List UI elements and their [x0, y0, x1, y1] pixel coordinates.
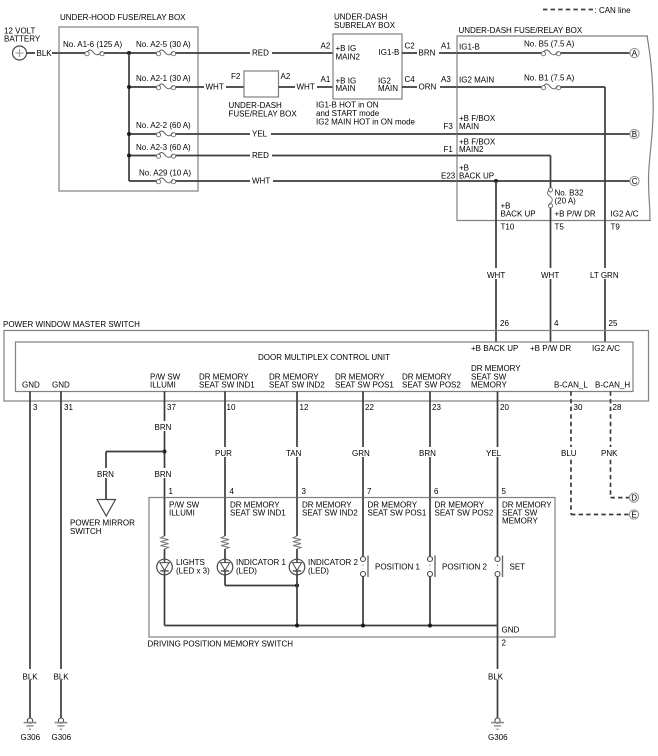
junction dot pin37 branch: [163, 450, 167, 454]
svg-text:PNK: PNK: [601, 449, 618, 458]
wire label BLK: [35, 47, 52, 57]
wire pin5 to switch set: [497, 498, 499, 558]
svg-text:(LED): (LED): [236, 567, 257, 576]
svg-text:F1: F1: [444, 145, 454, 154]
svg-text:BACK UP: BACK UP: [501, 210, 536, 219]
connector circle E: [629, 510, 638, 519]
connector circle B: [630, 129, 639, 138]
bus dot ind2: [295, 624, 299, 628]
fuse A2-3: [156, 152, 175, 158]
svg-text:2: 2: [502, 639, 507, 648]
svg-text:BATTERY: BATTERY: [4, 35, 41, 44]
connector circle C: [630, 176, 639, 185]
svg-text:B-CAN_H: B-CAN_H: [595, 381, 630, 390]
fuse B32: [547, 188, 553, 208]
svg-text:37: 37: [167, 403, 176, 412]
wire label WHT row2: [204, 81, 226, 91]
under-hood fuse/relay box: [59, 27, 198, 191]
svg-text:SEAT SW POS1: SEAT SW POS1: [335, 381, 394, 390]
junction dot ind2: [295, 584, 299, 588]
svg-text:4: 4: [230, 487, 235, 496]
svg-text:3: 3: [302, 487, 307, 496]
wire C4 to A3: [402, 86, 457, 88]
F2 pass-through box: [244, 71, 279, 97]
driving position memory switch box: [149, 498, 555, 638]
svg-text:+B P/W DR: +B P/W DR: [555, 210, 596, 219]
wire label GRN: [350, 447, 375, 457]
wire T10 to pin 26: [495, 221, 497, 343]
svg-text:No. A2-1 (30 A): No. A2-1 (30 A): [136, 74, 191, 83]
wire label BLK gnd2: [486, 669, 506, 680]
resistor lights: [160, 536, 169, 549]
row5 wire: [129, 180, 457, 182]
wire F1 to corner: [457, 155, 551, 157]
battery symbol: [13, 46, 27, 60]
ground G306 a: [24, 718, 37, 729]
wire ind1 to ind2 column: [225, 585, 297, 587]
svg-text:MAIN2: MAIN2: [336, 53, 361, 62]
svg-text:10: 10: [227, 403, 236, 412]
wire label YEL row3: [250, 128, 271, 138]
svg-text:C4: C4: [405, 75, 416, 84]
svg-text:T9: T9: [611, 223, 621, 232]
wire label BRN: [417, 47, 439, 57]
fuse A2-1: [156, 84, 175, 90]
svg-text:26: 26: [500, 319, 509, 328]
bus dot pos1: [361, 624, 365, 628]
wire sw pos1 to bus: [362, 577, 364, 626]
svg-text:G306: G306: [52, 733, 72, 742]
GND bus: [165, 625, 498, 627]
svg-text:UNDER-DASH FUSE/RELAY BOX: UNDER-DASH FUSE/RELAY BOX: [459, 26, 583, 35]
svg-text:LT GRN: LT GRN: [590, 271, 619, 280]
wire A1 to A: [457, 52, 630, 54]
wire pin10 down: [224, 391, 226, 497]
wire label WHT row2b: [295, 81, 317, 91]
svg-text:SET: SET: [510, 563, 526, 572]
svg-text:SEAT SW IND1: SEAT SW IND1: [230, 509, 286, 518]
svg-text:22: 22: [365, 403, 374, 412]
wire T5 to pin 4: [550, 221, 552, 343]
svg-text:31: 31: [64, 403, 73, 412]
svg-text:F2: F2: [231, 72, 241, 81]
svg-text:T10: T10: [501, 223, 515, 232]
svg-text:WHT: WHT: [252, 177, 270, 186]
svg-text:3: 3: [33, 403, 38, 412]
svg-text:A2: A2: [321, 42, 331, 51]
svg-text:IG2 MAIN: IG2 MAIN: [459, 75, 494, 84]
svg-text:WHT: WHT: [297, 83, 315, 92]
svg-text:A1: A1: [441, 42, 451, 51]
svg-text:IG1-B: IG1-B: [459, 43, 480, 52]
wire label BRN main: [153, 468, 176, 478]
wire C2 to A1: [402, 52, 457, 54]
svg-text:E23: E23: [441, 171, 456, 180]
svg-text:MAIN2: MAIN2: [459, 145, 484, 154]
B-CAN_H dashed to D: [611, 497, 630, 499]
wire E23 down to T10: [495, 181, 497, 221]
svg-text:No. A2-5 (30 A): No. A2-5 (30 A): [136, 40, 191, 49]
svg-text:YEL: YEL: [252, 130, 268, 139]
wire pin20 down: [497, 391, 499, 497]
svg-text:: CAN line: : CAN line: [595, 6, 632, 15]
wire label BRN 37: [153, 421, 176, 431]
fuse A2-2: [156, 131, 175, 137]
svg-text:BRN: BRN: [419, 449, 436, 458]
wire F3 to B: [457, 133, 630, 135]
svg-text:FUSE/RELAY BOX: FUSE/RELAY BOX: [229, 110, 298, 119]
wire label WHT t5: [539, 268, 562, 279]
under-dash subrelay box: [333, 34, 402, 99]
wire LED lights to bus: [164, 575, 166, 626]
fuse A29: [156, 178, 175, 184]
svg-text:No. A1-6 (125 A): No. A1-6 (125 A): [63, 40, 122, 49]
bus junction dot row1: [127, 51, 131, 55]
bus junction dot row2: [127, 85, 131, 89]
svg-text:(LED x 3): (LED x 3): [176, 567, 210, 576]
wire pin3 to LED ind2: [296, 498, 298, 560]
svg-text:A3: A3: [441, 75, 451, 84]
wire sw set to bus: [497, 577, 499, 626]
junction dot E23: [494, 179, 498, 183]
wire LED ind2 to bus: [296, 575, 298, 626]
wire label ORN: [417, 81, 440, 91]
CAN line legend: [543, 9, 593, 11]
svg-text:SEAT SW POS1: SEAT SW POS1: [368, 509, 427, 518]
switch position 1: [361, 556, 369, 578]
svg-text:DRIVING POSITION MEMORY SWITCH: DRIVING POSITION MEMORY SWITCH: [148, 640, 294, 649]
svg-text:RED: RED: [252, 49, 269, 58]
resistor ind1: [221, 536, 230, 549]
svg-text:No. A2-2 (60 A): No. A2-2 (60 A): [136, 121, 191, 130]
branch wire to power mirror switch: [106, 451, 165, 453]
svg-text:GRN: GRN: [352, 449, 370, 458]
svg-text:SEAT SW POS2: SEAT SW POS2: [435, 509, 494, 518]
svg-text:F3: F3: [444, 122, 454, 131]
svg-text:C: C: [632, 177, 638, 186]
svg-text:BRN: BRN: [155, 470, 172, 479]
svg-text:12: 12: [300, 403, 309, 412]
wire label BLU: [559, 447, 582, 457]
svg-text:23: 23: [432, 403, 441, 412]
svg-text:BLK: BLK: [23, 673, 39, 682]
svg-text:G306: G306: [21, 733, 41, 742]
master switch outer box: [4, 331, 649, 402]
svg-text:GND: GND: [52, 381, 70, 390]
LED indicator 2: [289, 559, 305, 575]
connector circle D: [629, 493, 638, 502]
svg-text:SEAT SW IND2: SEAT SW IND2: [302, 509, 358, 518]
resistor ind2: [293, 536, 302, 549]
svg-text:BLK: BLK: [54, 673, 70, 682]
under-dash fuse/relay box outline with wavy right edge: [457, 36, 653, 221]
svg-text:PUR: PUR: [215, 449, 232, 458]
svg-text:G306: G306: [488, 733, 508, 742]
svg-text:IG2 A/C: IG2 A/C: [592, 344, 620, 353]
ground G306 b: [55, 718, 68, 729]
door multiplex control unit box: [16, 342, 634, 392]
svg-text:+B P/W DR: +B P/W DR: [530, 344, 571, 353]
svg-text:B: B: [632, 130, 637, 139]
svg-text:BLK: BLK: [37, 49, 53, 58]
LED indicator 1: [217, 559, 233, 575]
wire T9 to pin 25: [604, 221, 606, 343]
wire F1 down through B32: [550, 156, 552, 221]
svg-text:ILLUMI: ILLUMI: [169, 509, 195, 518]
wire F2 box to subrelay: [279, 86, 334, 88]
svg-text:BRN: BRN: [155, 423, 172, 432]
B-CAN_H dashed wire: [610, 391, 612, 497]
wire label BRN branch: [95, 468, 118, 478]
svg-text:D: D: [631, 494, 637, 503]
wire label YEL: [484, 447, 506, 457]
bus vertical: [128, 53, 130, 181]
wire sw pos2 to bus: [429, 577, 431, 626]
row1 wire: [59, 52, 333, 54]
wire pin7 to switch pos1: [362, 498, 364, 558]
switch set: [495, 556, 503, 578]
svg-text:30: 30: [574, 403, 583, 412]
switch position 2: [428, 556, 436, 578]
svg-text:SEAT SW IND1: SEAT SW IND1: [199, 381, 255, 390]
wire pin22 down: [362, 391, 364, 497]
svg-text:YEL: YEL: [486, 449, 502, 458]
row4 wire: [129, 155, 457, 157]
connector circle A: [630, 48, 639, 57]
svg-text:SUBRELAY BOX: SUBRELAY BOX: [334, 21, 396, 30]
svg-text:BLU: BLU: [561, 449, 577, 458]
wire pin37 down: [164, 391, 166, 497]
svg-text:GND: GND: [22, 381, 40, 390]
svg-text:A1: A1: [321, 75, 331, 84]
wire LED ind1 down: [224, 575, 226, 586]
svg-text:7: 7: [367, 487, 372, 496]
svg-text:MAIN: MAIN: [378, 84, 398, 93]
svg-text:T5: T5: [555, 223, 565, 232]
wire label WHT t10: [485, 268, 508, 279]
svg-text:6: 6: [434, 487, 439, 496]
wire label WHT row5: [250, 175, 273, 185]
svg-text:DOOR MULTIPLEX CONTROL UNIT: DOOR MULTIPLEX CONTROL UNIT: [258, 353, 390, 362]
wire battery to under-hood box: [27, 52, 60, 54]
svg-text:(20 A): (20 A): [555, 197, 577, 206]
svg-text:C2: C2: [405, 42, 416, 51]
svg-text:BRN: BRN: [419, 49, 436, 58]
wire A3 to corner: [457, 86, 605, 88]
svg-text:BRN: BRN: [97, 470, 114, 479]
svg-text:IG2 A/C: IG2 A/C: [611, 210, 639, 219]
svg-text:No. A2-3 (60 A): No. A2-3 (60 A): [136, 143, 191, 152]
wire gnd out of box: [497, 626, 499, 719]
svg-text:5: 5: [502, 487, 507, 496]
wire label PNK: [599, 447, 623, 457]
svg-text:IG1-B: IG1-B: [379, 48, 400, 57]
svg-text:A2: A2: [281, 72, 291, 81]
power mirror switch arrow: [97, 500, 116, 517]
bus junction dot row3: [127, 132, 131, 136]
svg-text:B-CAN_L: B-CAN_L: [554, 381, 588, 390]
svg-text:+B BACK UP: +B BACK UP: [471, 344, 518, 353]
wire pin4 to LED ind1: [224, 498, 226, 560]
svg-text:No. B5 (7.5 A): No. B5 (7.5 A): [524, 40, 575, 49]
wire label RED row4: [250, 150, 272, 160]
svg-text:WHT: WHT: [487, 271, 505, 280]
wire GND31 down: [60, 391, 62, 718]
B-CAN_L dashed to E: [571, 514, 629, 516]
svg-text:No. A29 (10 A): No. A29 (10 A): [139, 169, 191, 178]
svg-text:20: 20: [500, 403, 509, 412]
svg-text:GND: GND: [502, 626, 520, 635]
wire label BLK gnd31: [52, 669, 71, 680]
bus junction dot row4: [127, 154, 131, 158]
svg-text:SEAT SW POS2: SEAT SW POS2: [402, 381, 461, 390]
svg-text:ORN: ORN: [419, 83, 437, 92]
LED lights: [157, 559, 173, 575]
svg-text:MEMORY: MEMORY: [471, 381, 508, 390]
svg-text:WHT: WHT: [541, 271, 559, 280]
wire label PUR: [213, 447, 237, 457]
svg-text:MAIN: MAIN: [459, 122, 479, 131]
svg-text:28: 28: [613, 403, 622, 412]
svg-text:No. B1 (7.5 A): No. B1 (7.5 A): [524, 74, 575, 83]
wire label RED row1: [250, 47, 272, 57]
svg-text:TAN: TAN: [286, 449, 302, 458]
wire label TAN: [284, 447, 308, 457]
svg-text:4: 4: [554, 319, 559, 328]
svg-text:(LED): (LED): [308, 567, 329, 576]
svg-text:POSITION 2: POSITION 2: [442, 563, 487, 572]
wire label BLK gnd3: [21, 669, 40, 680]
wire GND3 down: [29, 391, 31, 718]
svg-text:SWITCH: SWITCH: [70, 527, 102, 536]
wire IG2 down to T9: [604, 87, 606, 221]
wire pin12 down: [296, 391, 298, 497]
svg-text:BLK: BLK: [488, 673, 504, 682]
svg-text:ILLUMI: ILLUMI: [150, 381, 176, 390]
wire pin6 to switch pos2: [429, 498, 431, 558]
svg-text:25: 25: [609, 319, 618, 328]
wire label BRN 23: [417, 447, 441, 457]
wire label LT GRN t9: [588, 268, 619, 279]
bus dot pos2: [428, 624, 432, 628]
ground G306 c: [491, 718, 504, 729]
wire E23 to C: [457, 180, 630, 182]
svg-text:UNDER-HOOD FUSE/RELAY BOX: UNDER-HOOD FUSE/RELAY BOX: [60, 13, 186, 22]
svg-text:WHT: WHT: [206, 83, 224, 92]
svg-text:POSITION 1: POSITION 1: [375, 563, 420, 572]
svg-text:SEAT SW IND2: SEAT SW IND2: [269, 381, 325, 390]
svg-text:MAIN: MAIN: [336, 84, 356, 93]
svg-text:A: A: [632, 49, 638, 58]
fuse A2-5: [156, 50, 175, 56]
svg-text:1: 1: [169, 487, 174, 496]
fuse B1: [541, 84, 560, 90]
svg-text:IG2 MAIN HOT in ON mode: IG2 MAIN HOT in ON mode: [316, 118, 416, 127]
svg-text:MEMORY: MEMORY: [502, 517, 539, 526]
svg-text:POWER WINDOW MASTER SWITCH: POWER WINDOW MASTER SWITCH: [3, 320, 140, 329]
fuse A1-6: [85, 50, 104, 56]
row2 wire: [129, 86, 244, 88]
B-CAN_L dashed wire: [570, 391, 572, 514]
wire pin1 to LED lights: [164, 498, 166, 560]
row3 wire: [129, 133, 457, 135]
wire pin23 down: [429, 391, 431, 497]
svg-text:E: E: [631, 511, 636, 520]
svg-text:RED: RED: [252, 151, 269, 160]
fuse B5: [541, 50, 560, 56]
svg-text:BACK UP: BACK UP: [459, 171, 494, 180]
